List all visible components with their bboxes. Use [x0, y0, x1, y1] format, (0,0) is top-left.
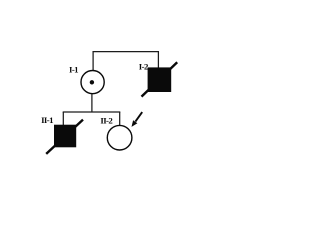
I-2 deceased slash	[142, 62, 178, 96]
svg-text:II-2: II-2	[100, 115, 113, 125]
node I-1: carrier center dot	[90, 80, 94, 84]
wire: mating-line bracket connecting I-1 and I-2 over the top	[93, 52, 158, 71]
node I-2: affected male (filled square)	[148, 67, 172, 92]
wire: sibship line	[63, 111, 121, 113]
svg-text:I-2: I-2	[139, 62, 149, 72]
wire: drop to II-2	[119, 112, 121, 125]
wire: drop to II-1	[62, 112, 64, 125]
node II-2: unaffected female proband (circle)	[107, 125, 132, 150]
node II-1: affected male (filled square)	[54, 125, 76, 148]
svg-text:I-1: I-1	[69, 64, 78, 74]
proband arrow head	[132, 120, 138, 127]
proband arrow shaft	[135, 112, 142, 122]
node I-1: carrier female (circle)	[81, 71, 104, 94]
II-1 deceased slash	[46, 120, 83, 154]
wire: descent line from I-1 couple to sibship line	[91, 94, 93, 112]
svg-text:II-1: II-1	[41, 115, 53, 125]
